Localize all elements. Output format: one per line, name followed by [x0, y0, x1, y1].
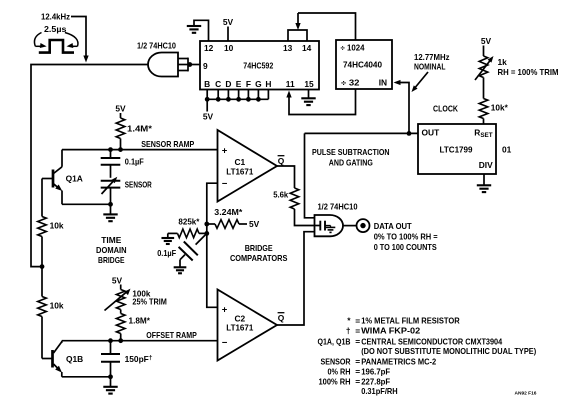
resistor 3.24M* to 5V [207, 207, 260, 229]
svg-text:0.1µF: 0.1µF [125, 157, 144, 167]
ground below Q1B / 150pF [103, 377, 117, 394]
svg-text:01: 01 [502, 144, 512, 154]
IC U3 74HC4040 divider [336, 40, 392, 89]
IC U4 LTC1799 oscillator [418, 124, 512, 174]
ground below sensor [103, 204, 117, 221]
capacitor 0.1µF (sensor series) [101, 150, 144, 178]
svg-text:5V: 5V [112, 276, 123, 286]
trimmer 100k 25% TRIM with 5V [105, 276, 167, 311]
wire SENSOR RAMP node [62, 139, 218, 152]
wire Q1B emitter to 150pF bottom [62, 374, 113, 379]
resistor 1.4M* with 5V (sensor ramp pullup) [115, 104, 152, 150]
svg-text:13: 13 [283, 43, 293, 53]
resistor 5.6k from C1 output [273, 166, 314, 226]
connector DATA OUT [343, 219, 438, 252]
svg-text:5V: 5V [203, 111, 214, 121]
wire gating input from LTC1799 OUT [305, 133, 315, 217]
label TIME DOMAIN BRIDGE [96, 235, 127, 265]
comparator C1 LT1671 [218, 130, 285, 202]
node bridge drive junction [40, 264, 45, 269]
svg-text:COMPARATORS: COMPARATORS [230, 253, 288, 263]
svg-text:−: − [222, 178, 228, 189]
svg-text:2.5µs: 2.5µs [44, 24, 67, 34]
IC U2 74HC592 counter [200, 41, 319, 90]
svg-text:9: 9 [203, 61, 208, 71]
svg-text:74HC4040: 74HC4040 [343, 60, 382, 70]
svg-text:227.8pF: 227.8pF [361, 377, 390, 387]
label 12.4kHz with pointer arrow [41, 12, 89, 63]
svg-text:PANAMETRICS MC-2: PANAMETRICS MC-2 [361, 357, 436, 367]
svg-text:DOMAIN: DOMAIN [96, 245, 127, 255]
capacitor 150pF† [101, 341, 153, 377]
transistor Q1A [42, 150, 83, 205]
svg-text:OUT: OUT [422, 128, 441, 138]
svg-text:TIME: TIME [101, 235, 121, 245]
svg-text:AND GATING: AND GATING [329, 157, 373, 167]
wire C2 output to gate U1b [277, 232, 315, 325]
wire OFFSET RAMP node [62, 330, 218, 343]
svg-text:150pF†: 150pF† [125, 354, 153, 364]
wire gate U1a inputs to 74HC592 pin 9 [187, 62, 200, 67]
wire data preset bus B-H tied to 5V [203, 90, 269, 122]
svg-text:=: = [355, 326, 360, 336]
svg-text:F: F [246, 79, 251, 89]
wire bridge center node (C1- to C2+) [204, 183, 217, 307]
wire from 74HC4040 top to pins 13/14 [298, 13, 356, 40]
svg-text:=: = [355, 316, 360, 326]
transistor Q1B [42, 341, 83, 377]
svg-text:÷ 1024: ÷ 1024 [341, 43, 365, 53]
svg-text:÷ 32: ÷ 32 [341, 78, 360, 88]
svg-text:LT1671: LT1671 [226, 323, 253, 333]
svg-text:3.24M*: 3.24M* [214, 207, 243, 217]
svg-text:+: + [222, 304, 228, 315]
svg-text:PULSE SUBTRACTION: PULSE SUBTRACTION [312, 147, 390, 157]
resistor 10k* at RSET [479, 99, 508, 125]
svg-text:Q1A, Q1B: Q1A, Q1B [318, 337, 351, 347]
svg-text:100% RH: 100% RH [319, 377, 351, 387]
svg-text:DATA OUT: DATA OUT [374, 221, 413, 231]
svg-text:11: 11 [286, 79, 295, 89]
svg-text:5V: 5V [481, 36, 492, 46]
svg-text:B: B [204, 79, 210, 89]
svg-text:−: − [222, 337, 228, 348]
capacitor 0.1µF (bridge, diagonal) to ground [157, 233, 207, 273]
svg-text:+: + [222, 145, 228, 156]
svg-text:5.6k: 5.6k [273, 190, 288, 200]
resistor 10k (lower bridge arm) [38, 267, 64, 359]
svg-text:G: G [255, 79, 262, 89]
label CLOCK [433, 104, 458, 114]
svg-text:*: * [347, 316, 351, 326]
svg-text:†: † [346, 326, 351, 336]
svg-text:LTC1799: LTC1799 [440, 144, 473, 154]
svg-text:0% RH: 0% RH [328, 367, 351, 377]
label figure number AN92 F16 [515, 390, 538, 395]
trimmer 1k RH=100% TRIM with 5V [475, 36, 559, 99]
svg-text:D: D [225, 79, 231, 89]
svg-text:5V: 5V [223, 17, 234, 27]
svg-text:1/2 74HC10: 1/2 74HC10 [318, 202, 358, 212]
svg-text:10k: 10k [50, 221, 64, 231]
svg-text:10k: 10k [50, 301, 64, 311]
wire Q1A emitter to sensor bottom [62, 202, 113, 207]
svg-text:12: 12 [204, 43, 214, 53]
svg-text:CLOCK: CLOCK [433, 104, 458, 114]
svg-text:WIMA FKP-02: WIMA FKP-02 [361, 326, 420, 336]
svg-text:1/2 74HC10: 1/2 74HC10 [137, 41, 176, 51]
label 2.5µs pulse waveform annotation [34, 24, 78, 52]
svg-text:0 TO 100 COUNTS: 0 TO 100 COUNTS [374, 242, 437, 252]
svg-text:SENSOR: SENSOR [321, 357, 351, 367]
svg-text:1k: 1k [498, 57, 508, 67]
label 12.77MHz NOMINAL with arrow [412, 52, 450, 92]
svg-text:5V: 5V [249, 219, 260, 229]
svg-text:RH = 100% TRIM: RH = 100% TRIM [498, 67, 559, 77]
svg-text:196.7pF: 196.7pF [361, 367, 390, 377]
gate U1b 1/2 74HC10 with input RC cap and ground [315, 202, 358, 237]
ground at 74HC592 pin 15 [301, 90, 315, 106]
svg-text:1.4M*: 1.4M* [127, 123, 153, 133]
svg-text:IN: IN [379, 78, 387, 88]
wire LTC1799 OUT to 74HC4040 IN [394, 80, 412, 136]
power 5V at 74HC592 pin 10 [223, 17, 234, 41]
svg-text:5V: 5V [115, 104, 126, 114]
svg-text:1% METAL FILM RESISTOR: 1% METAL FILM RESISTOR [361, 316, 460, 326]
svg-text:SENSOR: SENSOR [125, 179, 152, 189]
svg-text:=: = [355, 377, 360, 387]
svg-text:H: H [265, 79, 271, 89]
svg-text:0.1µF: 0.1µF [157, 248, 176, 258]
svg-text:0.31pF/RH: 0.31pF/RH [361, 386, 398, 396]
svg-text:25% TRIM: 25% TRIM [132, 297, 167, 307]
label BRIDGE COMPARATORS [230, 243, 288, 263]
svg-text:OFFSET RAMP: OFFSET RAMP [146, 330, 197, 340]
wire ÷32 output to 74HC592 pin 11 (arrow) [286, 89, 355, 115]
wire bracket joining pins 13 and 14 with clock arrow [288, 13, 307, 41]
svg-text:0% TO 100% RH =: 0% TO 100% RH = [374, 232, 438, 242]
svg-text:CENTRAL SEMICONDUCTOR CMXT3904: CENTRAL SEMICONDUCTOR CMXT3904 [361, 337, 502, 347]
comparator C2 LT1671 [218, 290, 285, 361]
wire LTC1799 OUT to gating [305, 132, 419, 134]
gate U1a 1/2 74HC10 (mirrored, output to left) [137, 41, 188, 77]
notes legend [318, 316, 537, 397]
svg-text:10k*: 10k* [491, 103, 509, 113]
svg-text:Q: Q [278, 313, 285, 323]
ground at LTC1799 DIV [477, 174, 491, 192]
svg-text:Q1A: Q1A [66, 173, 83, 183]
svg-text:BRIDGE: BRIDGE [98, 255, 125, 265]
svg-text:12.4kHz: 12.4kHz [41, 12, 70, 22]
svg-text:15: 15 [304, 79, 314, 89]
wire 12.4kHz net: top horizontal and left rail [31, 65, 148, 267]
svg-text:14: 14 [302, 43, 312, 53]
svg-text:74HC592: 74HC592 [243, 60, 273, 70]
svg-text:=: = [355, 357, 360, 367]
svg-text:C: C [215, 79, 221, 89]
svg-text:DIV: DIV [479, 160, 493, 170]
svg-text:10: 10 [224, 43, 234, 53]
sensor capacitor (variable) [101, 177, 152, 205]
svg-text:1.8M*: 1.8M* [129, 316, 151, 326]
ground at 74HC592 pin 12 [187, 20, 209, 41]
resistor 10k (upper bridge arm) [38, 179, 64, 267]
svg-text:AN92 F16: AN92 F16 [515, 390, 538, 395]
svg-text:E: E [236, 79, 242, 89]
svg-text:Q1B: Q1B [66, 354, 83, 364]
svg-text:=: = [355, 337, 360, 347]
svg-text:825k*: 825k* [178, 216, 200, 226]
resistor 1.8M* (offset ramp) [116, 310, 150, 341]
label PULSE SUBTRACTION AND GATING [312, 147, 390, 167]
svg-text:(DO NOT SUBSTITUTE MONOLITHIC: (DO NOT SUBSTITUTE MONOLITHIC DUAL TYPE) [361, 346, 536, 356]
svg-text:Q: Q [278, 156, 285, 166]
svg-text:SENSOR RAMP: SENSOR RAMP [141, 139, 194, 149]
resistor 825k* to ground [161, 216, 206, 244]
svg-text:BRIDGE: BRIDGE [245, 243, 273, 253]
svg-text:=: = [355, 367, 360, 377]
svg-text:LT1671: LT1671 [226, 166, 253, 176]
svg-text:NOMINAL: NOMINAL [414, 61, 446, 71]
